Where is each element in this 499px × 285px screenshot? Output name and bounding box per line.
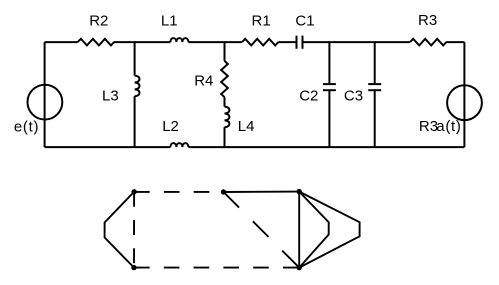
edge TM-BR dashed diagonal: [224, 192, 300, 268]
wire top between R1 and C1: [278, 41, 296, 43]
wire R4 branch top: [224, 42, 226, 61]
wire R4 to L4: [224, 97, 226, 106]
resistor R1: [242, 39, 278, 46]
node TM: [221, 189, 226, 194]
svg-text:R3: R3: [418, 12, 437, 29]
svg-text:L3: L3: [102, 87, 119, 104]
svg-text:C3: C3: [344, 88, 363, 105]
svg-text:a(t): a(t): [436, 118, 461, 135]
svg-text:R2: R2: [89, 13, 108, 30]
edge TR-BR vertical: [298, 192, 300, 268]
wire C2 branch top: [328, 42, 330, 84]
wire top left: [45, 41, 78, 43]
resistor R2: [78, 39, 114, 46]
svg-text:R3: R3: [419, 118, 438, 135]
edge TL-BL dashed: [133, 192, 135, 268]
wire L3 branch top: [134, 42, 136, 76]
edge TL-TM dashed: [134, 191, 223, 193]
wire top between C1 and R3: [303, 41, 411, 43]
node BL: [131, 265, 136, 270]
source e(t): [28, 85, 63, 120]
svg-text:R4: R4: [194, 73, 213, 90]
graph edges: [105, 192, 360, 268]
capacitor C1: [297, 36, 303, 49]
wire left side: [44, 42, 46, 147]
inductor L4: [225, 107, 230, 128]
edge TR-BR inner polyline: [299, 192, 329, 268]
svg-text:R1: R1: [252, 13, 271, 30]
capacitor C2: [323, 84, 336, 90]
edge TM-TR: [224, 191, 300, 193]
wire C3 branch bottom: [374, 90, 376, 147]
wire top between R2 and L1: [114, 41, 171, 43]
node TR: [297, 189, 302, 194]
edge BL-BR dashed: [134, 267, 299, 269]
edge TL left polyline: [105, 192, 135, 268]
svg-text:L1: L1: [161, 13, 178, 30]
wire top between L1 and R1: [188, 41, 242, 43]
node TL: [131, 189, 136, 194]
edge TR-BR outer polyline: [299, 192, 359, 268]
wire L4 branch bottom: [224, 127, 226, 147]
inductor L1: [170, 38, 188, 42]
wire bottom right: [188, 146, 464, 148]
svg-text:e(t): e(t): [14, 118, 39, 135]
resistor R3: [410, 39, 446, 46]
source a(t): [447, 85, 482, 120]
resistor R4: [221, 61, 228, 97]
svg-text:C2: C2: [299, 88, 318, 105]
capacitor C3: [368, 84, 381, 90]
svg-text:C1: C1: [295, 13, 314, 30]
wire top right: [446, 41, 464, 43]
wire L3 branch bottom: [134, 96, 136, 147]
svg-text:L2: L2: [162, 118, 179, 135]
wire C2 branch bottom: [328, 90, 330, 147]
wire right side: [463, 42, 465, 147]
node BR: [297, 265, 302, 270]
wire bottom left: [45, 146, 171, 148]
inductor L3: [135, 76, 140, 97]
svg-text:L4: L4: [238, 118, 255, 135]
inductor L2: [170, 143, 188, 147]
wire C3 branch top: [374, 42, 376, 84]
